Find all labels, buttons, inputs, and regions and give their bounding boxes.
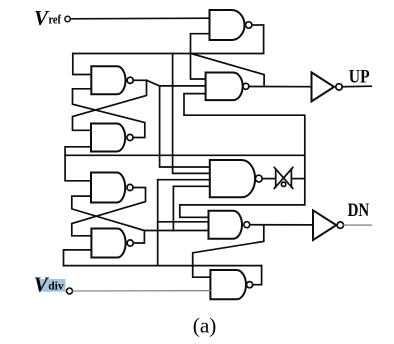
node Vref label	[34, 6, 62, 30]
wire U5 output to transmission gate	[262, 178, 276, 180]
wire U9 output right and up	[253, 266, 262, 285]
wire DN output	[344, 224, 372, 226]
nand U6 (latch B upper)	[91, 173, 125, 203]
wire n5 bus y=155.3	[65, 154, 305, 156]
nand U9 (bottom input gate)	[210, 270, 246, 299]
svg-text:DN: DN	[348, 200, 370, 221]
nand U7 (latch B lower)	[91, 229, 125, 258]
wire U9 feedback bus y=265.6	[64, 265, 262, 267]
node Vdiv label	[34, 273, 64, 297]
wire U1 feedback bus y=53.5	[73, 53, 264, 55]
wire U7 output to U8 input 3	[144, 230, 208, 232]
wire branch down to U4 top input	[191, 54, 206, 80]
svg-text:UP: UP	[349, 67, 370, 88]
wire U2 output bus down to U5 input 1	[160, 86, 210, 167]
wire n9 to U5 input 3	[158, 179, 210, 181]
wire diagonal to U4 output node	[191, 54, 264, 87]
wire U4 output to inverter	[249, 86, 312, 88]
wire U6 output cross-couple down to U7 input	[72, 188, 146, 236]
svg-text:(a): (a)	[193, 314, 217, 338]
wire U1 output right	[252, 24, 264, 26]
wire U1 bottom input branch	[191, 34, 210, 54]
wire U3 bottom input from n5 bus	[65, 147, 91, 181]
wire diagonal from U8 output node down-left	[193, 225, 264, 278]
nand U4 (UP gate)	[206, 73, 243, 101]
nand U3 (latch A lower)	[91, 124, 125, 152]
wire n9 to U8 input 2	[158, 221, 209, 223]
wire U4 bottom input loop from n5	[180, 94, 305, 218]
transmission gate symbol	[274, 168, 293, 189]
nand U2 (latch A upper)	[91, 66, 125, 94]
wire U2 output cross-couple down	[73, 80, 147, 130]
wire U2 output	[133, 79, 146, 81]
wire n9 bus vertical	[157, 180, 159, 266]
svg-text:div: div	[48, 279, 64, 293]
terminal Vref	[65, 16, 70, 21]
terminal Vdiv	[67, 288, 73, 294]
wire U3 output cross-couple up to U2 input	[73, 89, 145, 138]
wire branch up to U7 bottom input	[64, 250, 92, 266]
wire transmission gate to n5 bus	[291, 178, 304, 180]
wire bus down to U5 input 2	[173, 54, 210, 174]
wire U2 output jog to U4 input	[147, 80, 206, 86]
wire U8 output to inverter	[250, 224, 313, 226]
node Vdiv highlight	[40, 279, 66, 292]
inverter UP	[312, 72, 335, 101]
wire U1 output down	[263, 25, 265, 54]
nand U5 (center 4-input gate)	[210, 160, 255, 197]
inverter DN	[313, 210, 336, 240]
nand U1 (top input gate)	[210, 10, 245, 40]
wire left branch down to U2 top input	[73, 54, 92, 75]
wire U7 output cross-couple up to U6 input	[72, 196, 145, 243]
nand U8 (DN gate)	[209, 211, 243, 239]
wire Vref to U1 input	[71, 17, 210, 20]
svg-text:ref: ref	[49, 12, 62, 27]
wire branch up to U5 input 4	[173, 186, 209, 230]
wire UP output	[342, 85, 371, 88]
wire Vdiv to U9 input	[73, 290, 211, 292]
